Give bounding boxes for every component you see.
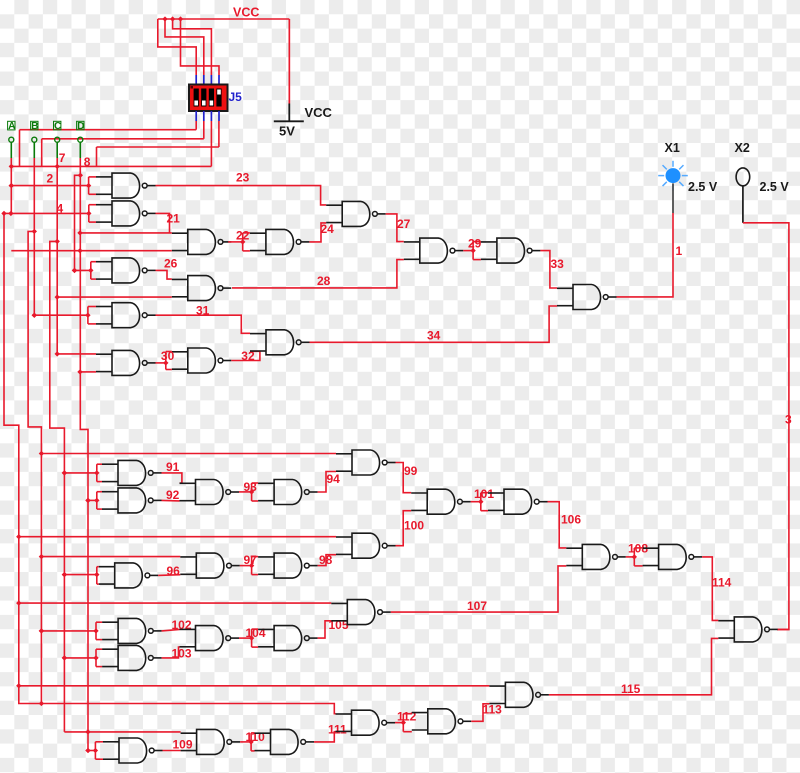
- svg-text:J5: J5: [229, 90, 243, 104]
- node A-4: [8, 211, 13, 216]
- svg-text:31: 31: [196, 304, 210, 318]
- net label 29: [468, 237, 482, 251]
- net label 7: [59, 151, 66, 165]
- svg-text:104: 104: [246, 626, 266, 640]
- NAND gate U107: [331, 600, 391, 625]
- NAND gate U97: [180, 553, 240, 578]
- NAND gate U94: [258, 480, 318, 505]
- net label 97: [244, 553, 258, 567]
- wire G3 bottom feed: [11, 250, 172, 252]
- svg-text:23: 23: [236, 171, 250, 185]
- pin J5-2 bottom: [203, 111, 205, 121]
- node col64 658: [62, 655, 67, 660]
- net label 110: [246, 730, 266, 744]
- node col18 685: [16, 683, 21, 688]
- svg-text:29: 29: [468, 237, 482, 251]
- NAND gate G10: [172, 348, 232, 373]
- wire net97 tie: [240, 557, 258, 575]
- wire G109 feed: [85, 742, 103, 759]
- wire net22 tie: [228, 233, 250, 251]
- svg-text:C: C: [54, 121, 62, 132]
- node col88 500: [85, 498, 90, 503]
- net label 107: [467, 599, 487, 613]
- svg-text:113: 113: [483, 703, 503, 717]
- NAND gate U110b: [255, 729, 315, 754]
- net label 101: [474, 487, 494, 501]
- svg-text:99: 99: [404, 464, 418, 478]
- node D G3bot: [77, 248, 82, 253]
- wire colD branch1: [75, 175, 81, 270]
- node VCC junction 3: [178, 16, 183, 21]
- pin J5-1 top: [195, 75, 197, 85]
- wire net3: [743, 223, 789, 630]
- svg-text:4: 4: [57, 202, 64, 216]
- NAND gate U100: [411, 489, 471, 514]
- svg-text:115: 115: [621, 682, 641, 696]
- wire net30 tie: [156, 352, 172, 370]
- wire to VCC symbol: [288, 19, 290, 104]
- wire net94: [318, 472, 336, 493]
- wire line537: [19, 536, 336, 538]
- net label 109: [173, 738, 193, 752]
- wire net98: [318, 555, 336, 566]
- net label 91: [166, 460, 180, 474]
- wire net2 pin2: [42, 121, 204, 166]
- svg-text:X2: X2: [735, 141, 750, 155]
- node col41 453: [39, 451, 44, 456]
- svg-text:2.5 V: 2.5 V: [760, 180, 790, 194]
- lamp X1: [658, 161, 688, 213]
- pin J5-3 bottom: [210, 111, 212, 121]
- wire net33: [540, 251, 557, 288]
- wire G91 feed: [62, 464, 102, 481]
- node col41 556: [39, 554, 44, 559]
- wire net115: [549, 638, 718, 694]
- net label 31: [196, 304, 210, 318]
- wire net26: [156, 270, 172, 279]
- wire net23: [156, 186, 327, 205]
- node D G3top: [77, 230, 82, 235]
- net label 24: [321, 222, 335, 236]
- svg-text:A: A: [8, 121, 16, 132]
- node col64 574: [62, 572, 67, 577]
- NAND gate U110a: [181, 729, 241, 754]
- wire net96: [158, 574, 180, 577]
- node col18 537: [16, 534, 21, 539]
- wire colB: [33, 158, 35, 315]
- wire net27: [386, 214, 404, 242]
- svg-text:B: B: [31, 121, 38, 132]
- wire net107: [391, 566, 567, 612]
- pin J5-4 top: [218, 75, 220, 85]
- svg-text:92: 92: [166, 488, 180, 502]
- svg-text:107: 107: [467, 599, 487, 613]
- wire G5 feed: [72, 262, 96, 279]
- net label 103: [172, 647, 192, 661]
- svg-text:21: 21: [167, 212, 181, 226]
- node col64 473: [62, 470, 67, 475]
- pin J5-3 top: [210, 75, 212, 85]
- NAND gate U97b: [258, 553, 318, 578]
- wire net106: [548, 502, 567, 548]
- wire net91: [162, 473, 182, 483]
- node VCC junction 2: [170, 16, 175, 21]
- svg-text:30: 30: [161, 349, 175, 363]
- svg-text:26: 26: [164, 257, 178, 271]
- wire colB jog: [28, 231, 41, 703]
- net label 2: [47, 172, 54, 186]
- wire net104 tie: [239, 629, 258, 647]
- net label 98: [319, 553, 333, 567]
- NAND gate U106: [566, 544, 626, 569]
- NAND gate G7: [96, 303, 156, 328]
- connector pin A: [8, 121, 17, 158]
- node C split: [55, 239, 60, 244]
- NAND gate U102: [102, 618, 162, 643]
- svg-text:114: 114: [712, 576, 732, 590]
- NAND gate U115: [489, 682, 549, 707]
- label X2 voltage: [760, 180, 790, 194]
- net label 99: [404, 464, 418, 478]
- connector pin C: [54, 121, 63, 158]
- node D G5feed: [72, 268, 77, 273]
- svg-text:93: 93: [244, 480, 258, 494]
- svg-text:8: 8: [84, 155, 91, 169]
- node B G7feed: [32, 313, 37, 318]
- wire colC: [56, 158, 58, 241]
- svg-text:7: 7: [59, 151, 66, 165]
- wire net29 tie: [463, 242, 481, 260]
- DIP switch J5: [189, 85, 228, 112]
- wire net101 tie: [471, 493, 488, 511]
- net label 21: [167, 212, 181, 226]
- net label 28: [317, 274, 331, 288]
- pin J5-2 top: [203, 75, 205, 85]
- net label 1: [676, 244, 683, 258]
- net label 3: [785, 413, 792, 427]
- svg-text:24: 24: [321, 222, 335, 236]
- NAND gate G5: [96, 258, 156, 283]
- wire line602: [19, 602, 332, 604]
- svg-text:112: 112: [397, 710, 417, 724]
- wire net110 tie: [240, 733, 254, 751]
- wire net4 feed G2: [1, 205, 96, 222]
- wire VCC to J5 pin2: [165, 19, 204, 75]
- svg-text:97: 97: [244, 553, 258, 567]
- svg-text:22: 22: [236, 229, 250, 243]
- NAND gate U103: [102, 645, 162, 670]
- net label VCC: [233, 6, 259, 20]
- NAND gate U27: [326, 201, 386, 226]
- wire G6 bottom feed: [57, 296, 172, 298]
- wire net93 tie: [239, 483, 258, 501]
- node VCC junction 1: [162, 16, 167, 21]
- wire net103: [162, 647, 180, 658]
- NAND gate U112: [412, 709, 472, 734]
- svg-text:100: 100: [404, 519, 424, 533]
- wire net32: [231, 351, 260, 360]
- svg-text:111: 111: [328, 723, 347, 737]
- NAND gate U99: [336, 450, 396, 475]
- connector pin B: [31, 121, 39, 158]
- svg-text:1: 1: [676, 244, 683, 258]
- wire G9 bottom feed: [77, 369, 96, 374]
- net label 22: [236, 229, 250, 243]
- wire net92: [162, 499, 180, 502]
- wire G96 feed: [62, 567, 100, 584]
- wire VCC to J5 pin1: [158, 19, 196, 75]
- wire net28: [232, 260, 404, 288]
- net label 27: [397, 217, 411, 231]
- wire colD: [79, 158, 81, 175]
- net label 112: [397, 710, 417, 724]
- wire col4 staircase: [4, 213, 336, 713]
- svg-text:96: 96: [167, 564, 181, 578]
- net label 34: [427, 329, 441, 343]
- NAND gate U34: [250, 330, 310, 355]
- svg-text:28: 28: [317, 274, 331, 288]
- wire net100: [396, 511, 412, 546]
- net label 8: [84, 155, 91, 169]
- NAND gate U91: [102, 460, 162, 485]
- net label 30: [161, 349, 175, 363]
- NAND gate U108: [643, 544, 703, 569]
- wire net21: [156, 213, 170, 233]
- net label 93: [244, 480, 258, 494]
- label 5V: [279, 124, 295, 139]
- NAND gate U109: [103, 738, 163, 763]
- NAND gate G6: [172, 276, 232, 301]
- wire net102: [162, 629, 180, 631]
- pin J5-4 bottom: [218, 111, 220, 121]
- svg-text:110: 110: [246, 730, 266, 744]
- svg-text:3: 3: [785, 413, 792, 427]
- svg-text:103: 103: [172, 647, 192, 661]
- NAND gate U96: [99, 563, 159, 588]
- wire line731: [64, 729, 180, 734]
- NAND gate G1: [96, 173, 156, 198]
- node col18 602: [16, 600, 21, 605]
- svg-text:34: 34: [427, 329, 441, 343]
- svg-text:94: 94: [327, 472, 341, 486]
- net label 26: [164, 257, 178, 271]
- wire G92 feed: [85, 492, 102, 509]
- wire U114 out: [778, 628, 789, 630]
- svg-text:5V: 5V: [279, 124, 295, 139]
- NAND gate U29: [404, 238, 464, 263]
- wire G102 feed: [39, 622, 102, 639]
- svg-text:D: D: [77, 121, 84, 132]
- wire net24: [309, 223, 326, 242]
- node col41 703: [39, 701, 44, 706]
- NAND gate U111: [336, 710, 396, 735]
- node B jog: [32, 229, 37, 234]
- NAND gate U33: [557, 285, 617, 310]
- wire net105: [318, 621, 332, 638]
- pin J5-1 bottom: [195, 111, 197, 121]
- wire colC branch2: [56, 241, 58, 354]
- node C G6feed: [55, 294, 60, 299]
- svg-text:VCC: VCC: [305, 105, 333, 120]
- wire net113: [471, 704, 489, 722]
- svg-text:98: 98: [319, 553, 333, 567]
- wire net109: [163, 750, 181, 752]
- net label 113: [483, 703, 503, 717]
- svg-text:91: 91: [166, 460, 180, 474]
- svg-text:106: 106: [561, 513, 581, 527]
- svg-text:33: 33: [551, 257, 565, 271]
- net label 111: [328, 723, 347, 737]
- net label 105: [329, 618, 349, 632]
- NAND gate U98row: [336, 533, 396, 558]
- NAND gate G2: [96, 201, 156, 226]
- net label 23: [236, 171, 250, 185]
- connector pin D: [77, 121, 85, 158]
- wire colC branch1: [50, 241, 65, 732]
- wire G7 feed: [32, 307, 96, 324]
- wire line685: [19, 685, 490, 687]
- wire VCC bus: [158, 19, 289, 104]
- wire net112 tie: [395, 714, 412, 732]
- node C-8: [55, 164, 60, 169]
- net label 94: [327, 472, 341, 486]
- net label 108: [628, 542, 648, 556]
- svg-text:27: 27: [397, 217, 411, 231]
- wire line99top: [41, 453, 336, 455]
- net label 96: [167, 564, 181, 578]
- wire colD branch2: [80, 175, 88, 750]
- wire net31: [156, 315, 251, 333]
- svg-text:2.5 V: 2.5 V: [688, 180, 718, 194]
- wire net1: [617, 213, 674, 297]
- svg-text:VCC: VCC: [233, 6, 259, 20]
- wire G9 top feed: [55, 351, 96, 356]
- svg-text:2: 2: [47, 172, 54, 186]
- wire VCC to J5 pin3: [173, 19, 212, 75]
- NAND gate U29b: [481, 238, 541, 263]
- node A-2: [9, 183, 14, 188]
- net label 92: [166, 488, 180, 502]
- wire net111: [314, 732, 336, 742]
- net label 102: [172, 618, 192, 632]
- svg-text:101: 101: [474, 487, 494, 501]
- NAND gate U93: [180, 480, 240, 505]
- power VCC 5V symbol: [274, 104, 304, 122]
- NAND gate G9: [96, 350, 156, 375]
- net label 106: [561, 513, 581, 527]
- wire net2 feed G1: [9, 177, 96, 194]
- net label 100: [404, 519, 424, 533]
- NAND gate U114: [718, 617, 778, 642]
- lamp X2: [736, 168, 750, 223]
- wire net114: [702, 557, 718, 621]
- net label 104: [246, 626, 266, 640]
- wire G3 top feed: [80, 232, 172, 234]
- svg-text:X1: X1: [665, 141, 680, 155]
- wire VCC to J5 pin4: [181, 19, 220, 75]
- NAND gate G3: [172, 229, 232, 254]
- wire net99: [396, 463, 412, 493]
- node A-8: [9, 164, 14, 169]
- wire net4 pin3: [11, 121, 212, 166]
- NAND gate U92: [102, 488, 162, 513]
- wire net8 pin4: [97, 121, 219, 166]
- net label 33: [551, 257, 565, 271]
- wire line556: [41, 556, 180, 558]
- wire G103 feed: [62, 649, 102, 666]
- wire net108 tie: [626, 548, 643, 566]
- node col88 750: [85, 748, 90, 753]
- node col41 630: [39, 628, 44, 633]
- wire colA: [10, 158, 12, 213]
- NAND gate G4: [250, 229, 310, 254]
- wire net7 pin1: [20, 121, 197, 166]
- NAND gate U104: [180, 626, 240, 651]
- net label 32: [241, 349, 255, 363]
- label VCC black: [305, 105, 333, 120]
- label X1 voltage: [688, 180, 718, 194]
- label X2: [735, 141, 750, 155]
- net label 114: [712, 576, 732, 590]
- net label 115: [621, 682, 641, 696]
- label X1: [665, 141, 680, 155]
- NAND gate U104b: [258, 626, 318, 651]
- svg-text:109: 109: [173, 738, 193, 752]
- NAND gate U101: [488, 489, 548, 514]
- node D split: [78, 173, 83, 178]
- net label 4: [57, 202, 64, 216]
- wire net34: [310, 306, 558, 342]
- label J5: [229, 90, 243, 104]
